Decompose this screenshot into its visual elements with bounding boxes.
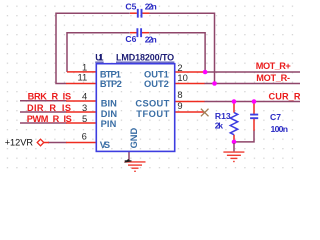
svg-text:BIN: BIN: [101, 99, 117, 109]
svg-text:8: 8: [177, 89, 182, 100]
svg-text:DIR_R_IS: DIR_R_IS: [27, 103, 71, 113]
svg-text:LMD18200/TO: LMD18200/TO: [116, 53, 174, 63]
svg-text:OUT2: OUT2: [144, 79, 169, 89]
svg-text:MOT_R-: MOT_R-: [256, 73, 290, 83]
svg-text:3: 3: [82, 102, 87, 113]
svg-text:11: 11: [77, 71, 87, 82]
svg-text:CSOUT: CSOUT: [135, 99, 169, 109]
svg-text:C6: C6: [125, 34, 136, 44]
svg-text:6: 6: [82, 130, 87, 141]
svg-text:22n: 22n: [145, 34, 157, 44]
svg-text:CUR_R: CUR_R: [269, 92, 301, 102]
svg-text:BTP1: BTP1: [100, 69, 121, 79]
svg-text:BTP2: BTP2: [100, 79, 122, 89]
svg-text:9: 9: [177, 100, 182, 111]
svg-text:+12VR: +12VR: [5, 138, 34, 148]
svg-text:4: 4: [82, 90, 87, 101]
svg-text:GND: GND: [129, 128, 139, 149]
svg-text:5: 5: [82, 113, 87, 124]
svg-text:TFOUT: TFOUT: [136, 109, 169, 119]
svg-text:MOT_R+: MOT_R+: [256, 61, 291, 71]
svg-text:2k: 2k: [215, 120, 223, 130]
svg-text:10: 10: [177, 72, 187, 83]
svg-text:BRK_R_IS: BRK_R_IS: [28, 92, 72, 102]
svg-text:C7: C7: [270, 112, 281, 122]
svg-text:PIN: PIN: [101, 119, 117, 129]
svg-text:C5: C5: [125, 2, 136, 12]
svg-text:VS: VS: [100, 140, 110, 150]
svg-text:100n: 100n: [271, 124, 289, 134]
svg-text:OUT1: OUT1: [144, 69, 169, 79]
svg-text:22n: 22n: [145, 2, 157, 12]
svg-text:U1: U1: [95, 53, 103, 63]
svg-text:DIN: DIN: [101, 109, 118, 119]
svg-text:PWM_R_IS: PWM_R_IS: [27, 114, 72, 124]
